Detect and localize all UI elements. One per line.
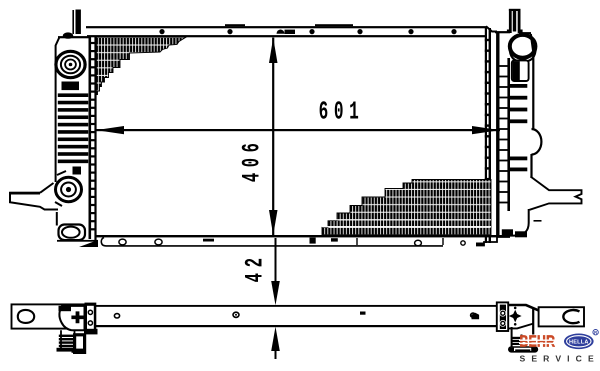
right mounting bracket xyxy=(530,177,582,210)
core right edge xyxy=(485,28,491,243)
right tank top edge xyxy=(495,31,531,34)
hatched core area top-left xyxy=(96,37,186,94)
bottom lower plate xyxy=(101,237,510,246)
left tank right wall xyxy=(89,37,92,239)
bottom view left tab xyxy=(12,304,88,328)
hatched core area bottom-right xyxy=(322,180,491,235)
svg-text:R: R xyxy=(594,330,597,335)
dimension line 406 xyxy=(269,38,278,236)
svg-text:42: 42 xyxy=(242,252,270,282)
right tank ribs xyxy=(510,84,528,171)
label 406 xyxy=(239,137,267,182)
left drain connector xyxy=(57,329,98,353)
svg-text:BEHR: BEHR xyxy=(520,333,556,351)
core left edge xyxy=(94,36,96,243)
svg-text:HELLA: HELLA xyxy=(569,339,589,345)
bottom view bar xyxy=(88,305,496,327)
block below boss xyxy=(62,82,80,91)
bar marks xyxy=(114,312,475,318)
label 601 xyxy=(319,98,365,127)
small block below ribs xyxy=(73,167,82,175)
SERVICE text xyxy=(520,353,600,363)
HELLA logo xyxy=(564,330,598,350)
left mounting bracket xyxy=(10,183,58,210)
left flange xyxy=(85,303,97,333)
right tank right edge xyxy=(530,34,541,177)
right flange xyxy=(497,302,508,331)
bar right clip xyxy=(472,313,480,320)
upper boss xyxy=(56,51,85,77)
left fitting assembly xyxy=(59,306,85,331)
left edge ticks xyxy=(91,42,96,231)
right bracket xyxy=(508,305,538,335)
right tank inner wall xyxy=(500,58,511,211)
core top header plate xyxy=(86,24,497,37)
right tank left wall xyxy=(496,33,499,236)
left tank ribs xyxy=(58,93,88,163)
svg-text:SERVICE: SERVICE xyxy=(520,353,600,363)
right tank bottom xyxy=(502,209,542,237)
label 42 xyxy=(242,252,270,282)
right drain xyxy=(509,327,538,352)
svg-text:406: 406 xyxy=(239,137,267,182)
left bottom outlet xyxy=(59,225,86,241)
right end cap xyxy=(539,307,584,326)
left tank outline xyxy=(56,36,91,225)
header bolts xyxy=(159,29,456,34)
bottom-left corner wedge xyxy=(79,240,98,247)
svg-text:601: 601 xyxy=(319,98,365,127)
BEHR logo xyxy=(519,333,557,351)
core bottom edge xyxy=(95,235,502,237)
right filler pipe xyxy=(507,9,523,33)
left tank top bolt xyxy=(63,32,73,38)
dimension line 601 xyxy=(96,126,500,134)
right tank clip xyxy=(512,60,529,81)
filler neck xyxy=(510,35,536,62)
left inlet pipe xyxy=(72,10,81,35)
dimension line 42 xyxy=(271,238,280,359)
lower boss xyxy=(55,171,82,206)
